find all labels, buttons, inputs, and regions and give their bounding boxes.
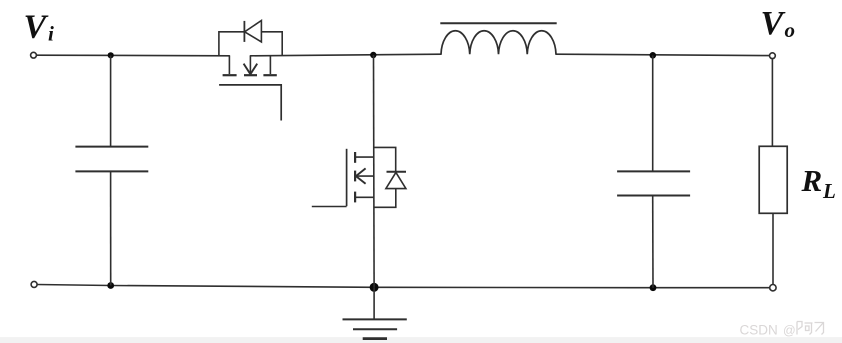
resistor RL [759, 59, 787, 285]
svg-text:o: o [785, 18, 796, 42]
svg-text:R: R [801, 163, 823, 198]
wire: top rail middle segment (Q1 drain to inductor) [250, 54, 441, 56]
inductor L1 [440, 23, 556, 54]
diode D1 (Q1 body diode) [219, 21, 282, 56]
watermark glyph 阿 [797, 322, 813, 335]
terminal (output return, bottom-right) [770, 285, 776, 291]
capacitor C1 (input) [75, 56, 148, 286]
node (switch node junction, top) [370, 52, 376, 58]
wire: bottom rail [37, 285, 770, 288]
terminal (input return, bottom-left) [31, 281, 37, 287]
node (input cap junction, bottom) [107, 282, 114, 289]
bottom gray strip [0, 337, 842, 343]
capacitor C2 (output) [617, 55, 690, 287]
svg-text:V: V [24, 9, 49, 46]
wire: top rail right segment (inductor to Vo terminal) [556, 54, 769, 55]
node (output junction, top) [650, 52, 657, 59]
terminal Vo (output, top-right) [770, 53, 776, 59]
diode D2 (Q2 body diode) [374, 147, 406, 207]
node (output cap junction, bottom) [650, 284, 657, 291]
label Vi [24, 9, 55, 46]
node (ground junction, bottom) [370, 283, 379, 292]
watermark CSDN @阿刁 [740, 323, 796, 338]
transistor Q1 (high-side MOSFET, horizontal) [219, 56, 281, 121]
terminal Vi (input, top-left) [31, 52, 37, 58]
label Vo [761, 5, 796, 42]
svg-text:@: @ [783, 324, 796, 338]
node A (input junction, top) [108, 52, 114, 58]
transistor Q2 (low-side MOSFET, vertical) [312, 149, 374, 207]
svg-text:i: i [48, 22, 54, 46]
wire: switch node vertical [373, 55, 376, 287]
ground [343, 287, 407, 338]
label RL [801, 163, 836, 203]
svg-text:L: L [822, 179, 836, 203]
svg-text:CSDN: CSDN [740, 323, 778, 338]
watermark glyph 刁 [815, 323, 824, 335]
wire: top rail left segment (Vi terminal to Q1 source) [37, 54, 230, 57]
svg-text:V: V [761, 5, 786, 42]
